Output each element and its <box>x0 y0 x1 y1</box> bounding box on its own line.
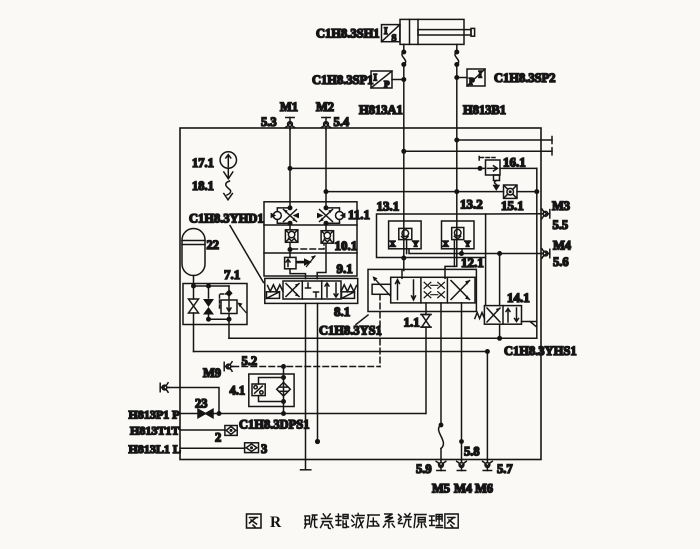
svg-text:23: 23 <box>195 397 208 411</box>
glyph zhu <box>305 515 317 528</box>
valve 16.1 pressure reducing <box>479 157 500 190</box>
test coupling M4 bottom (5.8) <box>457 461 467 471</box>
wire left coupling to P <box>169 388 219 414</box>
svg-text:M9: M9 <box>203 366 221 380</box>
svg-text:H813B1: H813B1 <box>463 103 506 117</box>
wire 9.1 to valve 8.1 P <box>290 269 306 279</box>
svg-text:5.9: 5.9 <box>416 462 432 476</box>
glyph gun <box>336 514 349 528</box>
svg-text:16.1: 16.1 <box>503 155 526 170</box>
check valve 15.1 <box>504 185 518 198</box>
check valve in 7.1 <box>194 284 230 320</box>
pilot dashed line 10.1 <box>292 244 324 250</box>
svg-text:I: I <box>374 73 378 83</box>
wire line D (M2 to check 15.1) <box>326 189 537 194</box>
glyph li <box>430 515 443 528</box>
test coupling M5 (5.9) <box>436 461 446 471</box>
svg-text:22: 22 <box>207 238 220 252</box>
pilot dashed wire 12.1 <box>379 294 381 366</box>
cylinder C1H8.3SH1 <box>400 19 475 44</box>
port T line H813T1 <box>180 426 237 436</box>
position sensor box SH1 <box>382 25 400 43</box>
block 7.1 <box>183 284 247 325</box>
wire line C (M1 to valve 16.1) <box>290 166 539 338</box>
svg-text:X: X <box>390 238 397 248</box>
glyph yuan <box>414 515 426 528</box>
valve 8.1 block <box>265 278 358 303</box>
svg-text:18.1: 18.1 <box>192 179 214 193</box>
svg-text:15.1: 15.1 <box>501 198 524 213</box>
glyph tu (box) <box>247 514 262 528</box>
svg-text:5.6: 5.6 <box>553 255 569 269</box>
pressure switch C1H8.3SP1 <box>371 71 406 90</box>
svg-text:4.1: 4.1 <box>230 384 246 398</box>
leader YHD1 <box>230 226 264 283</box>
pressure switch C1H8.3SP2 <box>454 69 485 87</box>
cartridge 13.2 <box>442 221 475 266</box>
port P line H813P1 <box>180 409 426 417</box>
svg-text:C1H8.3SP2: C1H8.3SP2 <box>494 71 555 85</box>
test coupling M2 (5.4) <box>321 118 331 130</box>
svg-text:1.1: 1.1 <box>404 315 420 330</box>
svg-text:R: R <box>270 514 282 531</box>
svg-text:8.1: 8.1 <box>334 304 350 319</box>
svg-text:12.1: 12.1 <box>461 255 484 270</box>
reducing valve 9.1 <box>285 255 316 268</box>
test coupling M9 (5.2) <box>224 362 233 372</box>
wire 7.1 bottom bus <box>206 317 232 339</box>
wire 13.2 B port down <box>445 240 457 279</box>
test coupling M1 (5.3) <box>285 118 295 130</box>
wire A1 from cylinder <box>401 44 406 214</box>
svg-text:M3: M3 <box>552 199 570 213</box>
caption figure title (drawn glyph strokes) <box>247 514 459 532</box>
leader YS1 <box>356 315 368 325</box>
glyph juan <box>321 514 333 529</box>
svg-text:Y: Y <box>465 238 471 248</box>
glyph ye <box>352 514 365 528</box>
svg-text:X: X <box>443 238 450 248</box>
svg-text:10.1: 10.1 <box>335 238 358 253</box>
svg-text:5.8: 5.8 <box>464 445 480 459</box>
filter unit 4.1 <box>249 367 294 414</box>
pressure gauge 17.1 <box>220 152 236 168</box>
wire 8.1 B port plugged <box>315 303 320 444</box>
svg-text:C1H8.3DPS1: C1H8.3DPS1 <box>239 418 310 432</box>
glyph ya <box>367 515 379 528</box>
block 13 outer <box>377 214 486 258</box>
svg-text:P: P <box>384 80 390 90</box>
test coupling left unlabeled <box>160 383 169 393</box>
wire M2 to valve 8.1 <box>317 243 326 278</box>
test coupling M6 (5.7) <box>483 461 493 471</box>
svg-text:C1H8.3YHS1: C1H8.3YHS1 <box>504 344 577 358</box>
wire M6 drop <box>486 352 488 461</box>
wire M1 vertical <box>288 130 293 208</box>
wire line B (A1 to right edge) <box>401 148 552 155</box>
wire 12.1 B to M4 bottom <box>459 303 464 461</box>
wire M2 vertical <box>324 130 329 208</box>
pilot solenoid 12.1 <box>372 276 391 295</box>
wire M3 line <box>486 213 543 215</box>
wire 8.1 T drain to tank <box>301 303 311 469</box>
svg-text:5.4: 5.4 <box>334 115 350 129</box>
proportional valve 12.1 body <box>391 277 475 303</box>
glyph tong <box>399 514 412 528</box>
svg-text:S: S <box>392 33 397 43</box>
wire M4 line with Y-collector <box>409 249 543 256</box>
svg-text:5.5: 5.5 <box>553 218 569 232</box>
svg-text:2: 2 <box>215 431 221 445</box>
svg-text:5.7: 5.7 <box>497 462 513 476</box>
svg-text:11.1: 11.1 <box>348 207 370 222</box>
block YHD1 outer <box>264 202 357 276</box>
svg-text:H813T1T: H813T1T <box>130 424 179 438</box>
wire 13.1 A port down <box>401 240 406 279</box>
valve 8.1 body <box>283 281 341 299</box>
wire drain line y338 <box>229 336 537 341</box>
svg-text:M4: M4 <box>553 239 572 253</box>
accumulator 22 <box>182 229 205 286</box>
test coupling M3 (5.5) <box>541 209 550 219</box>
svg-text:H813P1 P: H813P1 P <box>129 408 180 422</box>
svg-text:P: P <box>469 77 475 87</box>
valve 14.1 <box>475 254 537 339</box>
svg-text:C1H8.3SH1: C1H8.3SH1 <box>316 27 380 41</box>
enclosure frame <box>180 128 541 460</box>
wire line A (B1 to right edge) <box>454 137 552 144</box>
svg-text:H813A1: H813A1 <box>359 103 403 117</box>
pilot check 10.1 left <box>285 223 298 257</box>
svg-text:M5: M5 <box>432 482 450 496</box>
throttle check pair 11.1 left <box>271 205 299 225</box>
valve 8.1 springs and solenoids <box>267 285 357 299</box>
svg-text:C1H8.3YHD1: C1H8.3YHD1 <box>189 212 264 226</box>
svg-text:13.2: 13.2 <box>460 197 483 212</box>
wire 12.1 T to M5 <box>439 303 444 461</box>
wire drain line y351 <box>194 325 490 354</box>
svg-text:13.1: 13.1 <box>377 199 400 214</box>
svg-text:I: I <box>479 70 483 80</box>
svg-text:7.1: 7.1 <box>224 267 240 282</box>
svg-text:M1: M1 <box>280 100 298 114</box>
svg-text:M2: M2 <box>316 100 334 114</box>
glyph xi <box>383 514 394 528</box>
svg-text:Y: Y <box>413 238 419 248</box>
svg-text:I: I <box>384 26 388 36</box>
glyph tu2 <box>445 514 458 528</box>
block 12.1 <box>368 269 476 311</box>
shutoff valve in 7.1 <box>189 284 199 325</box>
svg-text:5.3: 5.3 <box>261 115 277 129</box>
svg-text:H813L1 L: H813L1 L <box>129 442 181 456</box>
shutoff valve 1.1 <box>421 303 431 414</box>
check symbol 18.1 <box>224 168 233 200</box>
cartridge 13.1 <box>389 214 422 254</box>
svg-text:14.1: 14.1 <box>507 290 530 305</box>
wire B1 from cylinder <box>454 44 459 239</box>
svg-text:M6: M6 <box>475 482 493 496</box>
svg-text:M4: M4 <box>454 482 473 496</box>
test coupling M4 right (5.6) <box>541 249 550 259</box>
svg-text:3: 3 <box>261 442 267 456</box>
dashed pilot supply wire <box>233 364 380 369</box>
pilot check 10.1 right <box>321 223 334 243</box>
relief valve in 7.1 <box>220 286 247 319</box>
svg-text:C1H8.3YS1: C1H8.3YS1 <box>319 324 382 338</box>
svg-text:C1H8.3SP1: C1H8.3SP1 <box>312 73 373 87</box>
port L line H813L1 <box>180 443 259 453</box>
throttle check pair 11.1 right <box>317 205 345 225</box>
svg-text:9.1: 9.1 <box>337 261 353 276</box>
svg-text:17.1: 17.1 <box>192 156 214 170</box>
